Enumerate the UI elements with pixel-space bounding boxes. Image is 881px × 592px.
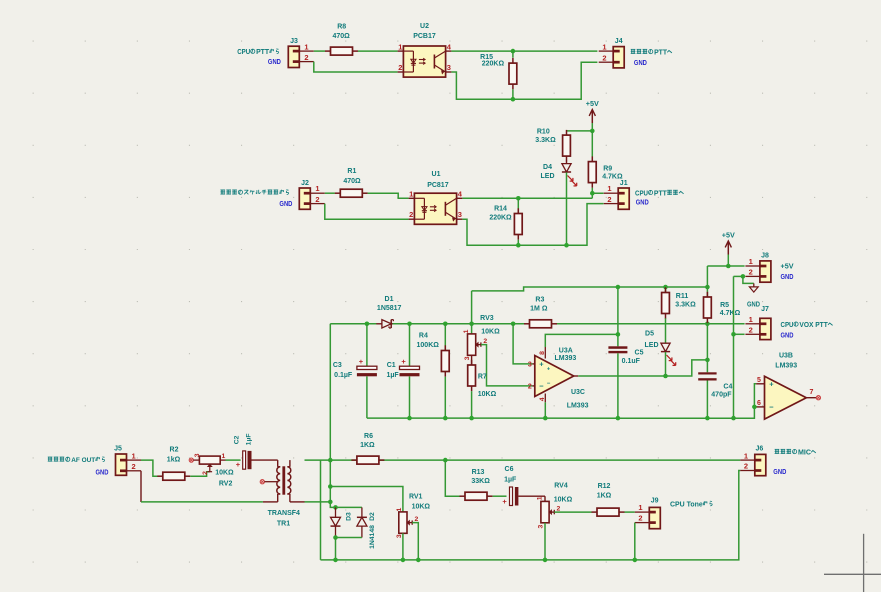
- svg-text:R2: R2: [170, 447, 179, 454]
- svg-text:2: 2: [607, 195, 611, 204]
- svg-text:1µF: 1µF: [504, 476, 517, 483]
- svg-text:PCB17: PCB17: [413, 33, 436, 40]
- svg-text:+5V: +5V: [586, 99, 599, 108]
- svg-text:R1: R1: [347, 168, 356, 175]
- svg-text:J7: J7: [761, 306, 769, 313]
- svg-text:3.3KΩ: 3.3KΩ: [675, 301, 696, 308]
- svg-text:CPU Tone: CPU Tone: [670, 501, 703, 508]
- svg-text:1KΩ: 1KΩ: [360, 442, 375, 449]
- svg-text:C2: C2: [234, 435, 241, 444]
- svg-text:R7: R7: [478, 373, 487, 380]
- svg-text:10KΩ: 10KΩ: [481, 329, 500, 336]
- svg-text:R4: R4: [419, 333, 428, 340]
- svg-text:LED: LED: [645, 342, 659, 349]
- svg-text:10KΩ: 10KΩ: [554, 497, 573, 504]
- svg-text:1µF: 1µF: [386, 372, 399, 379]
- svg-text:LM393: LM393: [555, 355, 577, 362]
- svg-text:1M Ω: 1M Ω: [530, 306, 548, 313]
- svg-text:RV2: RV2: [219, 480, 233, 487]
- svg-text:MIC: MIC: [798, 449, 811, 456]
- svg-text:1: 1: [638, 503, 642, 512]
- svg-text:1: 1: [409, 190, 413, 199]
- svg-text:CPU: CPU: [781, 322, 794, 329]
- svg-text:2: 2: [398, 63, 402, 72]
- svg-text:3: 3: [396, 534, 403, 538]
- svg-text:J6: J6: [756, 446, 764, 453]
- svg-text:CPU: CPU: [237, 49, 250, 56]
- svg-text:3: 3: [538, 524, 545, 528]
- svg-text:1: 1: [398, 42, 402, 51]
- svg-text:CPU: CPU: [635, 190, 648, 197]
- svg-text:1kΩ: 1kΩ: [167, 457, 181, 464]
- svg-text:R6: R6: [364, 433, 373, 440]
- svg-text:1: 1: [537, 496, 544, 500]
- svg-text:C5: C5: [635, 350, 644, 357]
- svg-text:+5V: +5V: [722, 231, 735, 240]
- svg-text:1KΩ: 1KΩ: [597, 493, 612, 500]
- svg-text:2: 2: [602, 53, 606, 62]
- svg-text:2: 2: [315, 195, 319, 204]
- svg-text:470pF: 470pF: [711, 392, 732, 399]
- svg-text:D4: D4: [543, 164, 552, 171]
- svg-text:U1: U1: [432, 171, 441, 178]
- svg-text:2: 2: [638, 514, 642, 523]
- svg-text:3: 3: [447, 63, 451, 72]
- svg-text:C3: C3: [333, 362, 342, 369]
- svg-text:J5: J5: [114, 446, 122, 453]
- svg-text:6: 6: [757, 400, 761, 407]
- svg-text:PTT: PTT: [654, 49, 668, 56]
- svg-text:0.1µF: 0.1µF: [334, 372, 353, 379]
- svg-text:J8: J8: [761, 253, 769, 260]
- svg-text:GND: GND: [781, 274, 794, 281]
- svg-text:1: 1: [222, 453, 226, 460]
- svg-text:1µF: 1µF: [245, 433, 252, 445]
- svg-text:1: 1: [304, 42, 308, 51]
- svg-text:R10: R10: [537, 128, 550, 135]
- svg-text:GND: GND: [781, 333, 794, 340]
- svg-text:100KΩ: 100KΩ: [417, 342, 440, 349]
- svg-text:GND: GND: [773, 469, 786, 476]
- svg-text:1: 1: [749, 257, 753, 266]
- svg-text:LED: LED: [541, 173, 555, 180]
- svg-text:+: +: [547, 367, 550, 373]
- svg-text:8: 8: [539, 351, 546, 355]
- svg-text:+: +: [401, 357, 406, 366]
- svg-text:1: 1: [607, 184, 611, 193]
- svg-text:D2: D2: [369, 512, 376, 521]
- svg-text:TR1: TR1: [277, 520, 290, 527]
- svg-text:GND: GND: [634, 60, 647, 67]
- svg-text:220KΩ: 220KΩ: [489, 215, 512, 222]
- svg-text:7: 7: [810, 389, 814, 396]
- svg-text:1N4148: 1N4148: [369, 525, 376, 549]
- svg-text:J3: J3: [290, 38, 298, 45]
- svg-text:C1: C1: [387, 362, 396, 369]
- svg-text:R3: R3: [535, 297, 544, 304]
- svg-text:RV3: RV3: [480, 315, 494, 322]
- svg-text:2: 2: [744, 462, 748, 471]
- svg-text:GND: GND: [747, 301, 760, 308]
- svg-text:3: 3: [458, 210, 462, 219]
- svg-text:2: 2: [528, 383, 532, 390]
- svg-text:GND: GND: [96, 469, 109, 476]
- svg-text:2: 2: [132, 462, 136, 471]
- svg-text:R12: R12: [598, 483, 611, 490]
- svg-text:U3A: U3A: [559, 347, 573, 354]
- svg-text:10KΩ: 10KΩ: [215, 470, 234, 477]
- svg-text:2: 2: [557, 505, 561, 512]
- svg-text:J1: J1: [620, 180, 628, 187]
- svg-text:3.3KΩ: 3.3KΩ: [535, 137, 556, 144]
- svg-text:1: 1: [396, 507, 403, 511]
- svg-text:4: 4: [539, 397, 546, 401]
- svg-text:D1: D1: [385, 296, 394, 303]
- svg-text:220KΩ: 220KΩ: [482, 61, 505, 68]
- svg-text:1: 1: [132, 451, 136, 460]
- svg-text:33KΩ: 33KΩ: [471, 478, 490, 485]
- svg-text:D3: D3: [345, 512, 352, 521]
- svg-text:2: 2: [749, 325, 753, 334]
- svg-text:GND: GND: [279, 201, 292, 208]
- svg-text:PTT: PTT: [654, 190, 668, 197]
- svg-text:2: 2: [409, 210, 413, 219]
- svg-text:1: 1: [749, 315, 753, 324]
- svg-text:+: +: [359, 357, 364, 366]
- svg-text:LM393: LM393: [775, 363, 797, 370]
- svg-text:R14: R14: [494, 205, 507, 212]
- svg-text:RV1: RV1: [409, 493, 423, 500]
- svg-text:10KΩ: 10KΩ: [478, 391, 497, 398]
- svg-text:J9: J9: [651, 497, 659, 504]
- svg-text:GND: GND: [636, 199, 649, 206]
- svg-text:0.1uF: 0.1uF: [622, 358, 641, 365]
- svg-text:TRANSF4: TRANSF4: [268, 510, 300, 517]
- svg-text:PC817: PC817: [427, 182, 449, 189]
- svg-text:3: 3: [194, 453, 201, 457]
- svg-text:4.7KΩ: 4.7KΩ: [720, 310, 741, 317]
- svg-text:1: 1: [463, 329, 470, 333]
- svg-text:3: 3: [528, 361, 532, 368]
- svg-text:R5: R5: [720, 302, 729, 309]
- svg-text:U3B: U3B: [779, 353, 793, 360]
- svg-text:1: 1: [602, 42, 606, 51]
- svg-text:VOX PTT: VOX PTT: [799, 322, 828, 329]
- svg-text:−: −: [539, 382, 544, 391]
- svg-text:C4: C4: [723, 383, 732, 390]
- svg-text:2: 2: [202, 471, 209, 475]
- svg-text:R11: R11: [676, 293, 689, 300]
- svg-text:2: 2: [749, 268, 753, 277]
- svg-text:U2: U2: [420, 23, 429, 30]
- svg-text:3: 3: [464, 356, 471, 360]
- svg-text:J2: J2: [301, 180, 309, 187]
- svg-text:470Ω: 470Ω: [332, 33, 350, 40]
- svg-text:1: 1: [315, 184, 319, 193]
- svg-text:R9: R9: [603, 166, 612, 173]
- svg-text:+: +: [502, 497, 507, 506]
- svg-text:R13: R13: [472, 469, 485, 476]
- svg-text:PTT: PTT: [256, 49, 270, 56]
- svg-text:2: 2: [304, 53, 308, 62]
- svg-text:5: 5: [757, 377, 761, 384]
- svg-text:+: +: [539, 360, 544, 369]
- svg-text:GND: GND: [268, 59, 281, 66]
- svg-text:+: +: [236, 460, 241, 469]
- svg-text:AF OUT: AF OUT: [71, 457, 95, 464]
- svg-text:LM393: LM393: [567, 403, 589, 410]
- svg-text:C6: C6: [505, 466, 514, 473]
- svg-text:−: −: [769, 403, 774, 412]
- svg-text:+: +: [769, 380, 774, 389]
- svg-text:10KΩ: 10KΩ: [412, 504, 431, 511]
- svg-text:U3C: U3C: [571, 389, 585, 396]
- svg-text:1: 1: [744, 451, 748, 460]
- svg-text:−: −: [547, 381, 551, 387]
- svg-text:2: 2: [483, 338, 487, 345]
- svg-text:2: 2: [415, 516, 419, 523]
- svg-text:R8: R8: [337, 24, 346, 31]
- svg-text:470Ω: 470Ω: [343, 178, 361, 185]
- svg-text:D5: D5: [645, 331, 654, 338]
- svg-text:+5V: +5V: [781, 263, 794, 270]
- svg-text:1N5817: 1N5817: [377, 305, 402, 312]
- svg-text:J4: J4: [615, 38, 623, 45]
- svg-text:RV4: RV4: [554, 483, 568, 490]
